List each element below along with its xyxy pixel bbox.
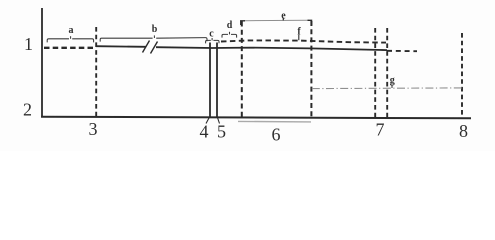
svg-text:a: a <box>69 25 74 36</box>
svg-text:7: 7 <box>376 120 385 140</box>
svg-text:e: e <box>281 11 286 22</box>
svg-text:c: c <box>209 29 214 40</box>
svg-text:1: 1 <box>24 34 33 54</box>
svg-text:f: f <box>297 27 301 38</box>
svg-text:8: 8 <box>459 121 468 141</box>
svg-text:b: b <box>152 24 158 35</box>
svg-text:6: 6 <box>272 125 281 145</box>
svg-text:g: g <box>390 75 395 86</box>
svg-text:d: d <box>227 20 233 31</box>
svg-text:4: 4 <box>200 122 209 142</box>
svg-text:2: 2 <box>23 100 32 120</box>
svg-text:5: 5 <box>217 122 226 142</box>
svg-text:3: 3 <box>89 119 98 139</box>
